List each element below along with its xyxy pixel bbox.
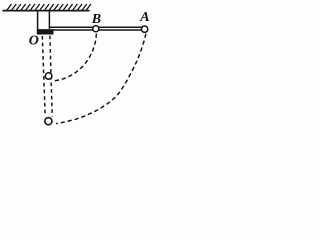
- svg-text:O: O: [29, 33, 39, 48]
- ball A at rod end: [141, 26, 147, 32]
- hinge block at O: [37, 29, 54, 34]
- dashed arc path of A: [56, 34, 146, 124]
- bracket left vertical: [37, 10, 39, 35]
- dashed vertical left (rod hanging position): [42, 36, 45, 116]
- ball B on rod: [93, 26, 99, 32]
- svg-text:B: B: [91, 12, 101, 27]
- dashed arc path of B: [54, 34, 96, 81]
- ceiling line: [3, 10, 90, 12]
- svg-text:A: A: [139, 10, 149, 25]
- ball B final position: [45, 73, 52, 80]
- ball A final position: [45, 118, 52, 125]
- rod top line: [49, 26, 142, 28]
- dashed vertical right (rod hanging position): [50, 36, 52, 117]
- rod bottom line: [37, 29, 141, 31]
- ceiling hatching: [7, 4, 91, 10]
- bracket right vertical: [48, 10, 50, 29]
